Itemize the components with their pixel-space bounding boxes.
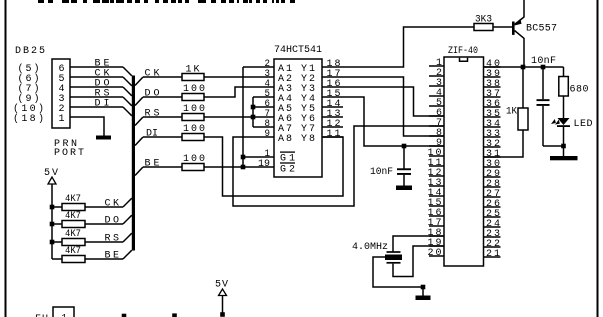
- supply 5V triangle (bottom): [219, 289, 227, 296]
- wire rail to 4K7 (CK): [52, 206, 62, 208]
- U1 right stub pin 12: [322, 126, 343, 128]
- ZIF left stub pin 16: [429, 215, 444, 217]
- wire to U1 pin2 (A1): [243, 66, 274, 68]
- wire U1 pin9 (A8) wrap-around to ZIF pin7: [233, 126, 444, 206]
- svg-text:4K7: 4K7: [65, 211, 81, 222]
- fuse box (cut off): [53, 307, 74, 317]
- wire ZIF pin18 to resonator: [393, 236, 444, 252]
- ZIF right stub pin 39: [484, 76, 501, 78]
- bus (thick vertical line): [132, 76, 135, 251]
- 5V stem (bottom): [222, 296, 224, 314]
- wire 4K7 to bus (CK): [85, 206, 123, 208]
- svg-text:ZIF-40: ZIF-40: [448, 46, 478, 57]
- junction dot 2 (cut off, bottom): [172, 313, 177, 317]
- Q1 emitter arrow (PNP): [515, 19, 522, 25]
- bus entry diagonal (DO): [123, 215, 132, 224]
- 5V rail vertical: [51, 184, 53, 259]
- ZIF right stub pin 35: [484, 116, 501, 118]
- ZIF right stub pin 36: [484, 106, 501, 108]
- wire RS to 100R: [143, 116, 182, 118]
- bus exit diagonal RS: [135, 117, 143, 126]
- ZIF left stub pin 5: [429, 105, 444, 107]
- wire Y3 (pin16) to ZIF pin6: [343, 87, 444, 116]
- socket ZIF-40 body: [444, 57, 484, 266]
- svg-text:21: 21: [486, 249, 500, 260]
- resistor 4K7 (CK): [62, 204, 85, 211]
- ZIF right stub pin 33: [484, 136, 501, 138]
- LED D1 cathode bar: [557, 125, 570, 127]
- svg-text:5V: 5V: [44, 168, 58, 179]
- 10nF C2 top lead: [403, 146, 405, 169]
- 1K R lead from rail: [522, 67, 524, 108]
- bus exit diagonal DI: [135, 137, 143, 146]
- svg-text:DI: DI: [146, 129, 158, 140]
- svg-text:4K7: 4K7: [65, 194, 81, 205]
- ZIF left stub pin 14: [429, 195, 444, 197]
- U1 pin6 stub (A5): [253, 106, 274, 108]
- page border right: [597, 0, 599, 317]
- wire DO to 100R: [143, 96, 182, 98]
- svg-text:Y8: Y8: [301, 134, 315, 145]
- wire Y2 (pin17) to ZIF pin8: [343, 77, 444, 136]
- bus entry diagonal DI: [123, 107, 132, 116]
- wire rail corner to 4K7 (BE): [52, 258, 62, 260]
- resistor 100 (BE): [182, 164, 204, 171]
- svg-text:1K: 1K: [506, 107, 517, 118]
- ZIF left stub pin 6: [429, 115, 444, 117]
- bus entry diagonal (BE): [123, 250, 132, 259]
- ZIF left stub pin 12: [429, 175, 444, 177]
- supply 5V triangle (left): [48, 177, 56, 184]
- ZIF right stub pin 22: [484, 246, 501, 248]
- C3 bottom lead: [542, 106, 544, 146]
- ZIF left stub pin 10: [429, 155, 444, 157]
- ZIF right stub pin 37: [484, 96, 501, 98]
- wire resonator center tap to ground: [373, 257, 423, 287]
- ZIF right stub pin 30: [484, 166, 501, 168]
- ZIF right stub pin 28: [484, 186, 501, 188]
- junction at resonator ground: [421, 285, 426, 290]
- svg-text:100: 100: [183, 104, 205, 115]
- ZIF right stub pin 29: [484, 176, 501, 178]
- ZIF right stub pin 21: [484, 256, 501, 258]
- connector DB25 body: [52, 59, 70, 128]
- svg-text:1: 1: [62, 314, 68, 317]
- wire DI wrap-around to U1 pin11 (Y8): [204, 137, 343, 196]
- resistor 100 (RS): [182, 114, 204, 121]
- wire DB25 pin 2 to bus (DI): [70, 106, 123, 108]
- ZIF right stub pin 31: [484, 156, 501, 158]
- wire DB25 pin 5 to bus (CK): [70, 76, 123, 78]
- wire 1K to ZIF pin31: [484, 130, 524, 157]
- svg-text:9: 9: [265, 129, 271, 140]
- wire rail to 4K7 (RS): [52, 241, 62, 243]
- C3 top lead: [542, 67, 544, 99]
- wire 4K7 to bus (BE): [85, 258, 123, 260]
- transistor Q1 BC557 base bar: [512, 22, 515, 35]
- svg-text:1K: 1K: [186, 65, 200, 76]
- svg-text:LED: LED: [574, 119, 593, 130]
- ground symbol under DB25: [96, 136, 111, 140]
- svg-text:680: 680: [570, 85, 589, 96]
- ZIF right stub pin 23: [484, 236, 501, 238]
- junction rail/DO: [50, 222, 55, 227]
- resonator X1 bottom plate: [387, 262, 401, 264]
- bus exit diagonal BE: [135, 167, 143, 176]
- ZIF right stub pin 34: [484, 126, 501, 128]
- junction rail/CK: [50, 205, 55, 210]
- wire Y4 (pin15) to ZIF pin9: [343, 97, 444, 146]
- Q1 collector diagonal: [515, 31, 525, 39]
- IC U1 74HCT541 body: [274, 59, 322, 177]
- wire rail to 680: [563, 67, 565, 77]
- wire 4K7 to bus (DO): [85, 223, 123, 225]
- svg-text:4K7: 4K7: [65, 246, 81, 257]
- resonator ground lead: [422, 287, 424, 296]
- svg-text:1: 1: [59, 114, 65, 125]
- ZIF left stub pin 8: [429, 135, 444, 137]
- ZIF left stub pin 13: [429, 185, 444, 187]
- resonator X1 top plate: [387, 251, 401, 253]
- ZIF left stub pin 3: [429, 85, 444, 87]
- ZIF right stub pin 32: [484, 146, 501, 148]
- G1 overline: [280, 151, 295, 153]
- U1 pin5 stub (A4): [253, 96, 274, 98]
- wire ZIF pin40 rail: [484, 66, 564, 68]
- svg-text:100: 100: [183, 154, 205, 165]
- svg-text:11: 11: [327, 129, 341, 140]
- wire DB25 pin 3 to bus (RS): [70, 96, 123, 98]
- wire Y1 (pin18) up to 3K3: [343, 27, 474, 67]
- ground symbol below LED: [550, 156, 578, 160]
- ground symbol below C2: [396, 186, 412, 191]
- svg-text:10nF: 10nF: [531, 56, 556, 67]
- wire BE net vertical to G1 and pin2 (A1): [242, 67, 244, 167]
- ZIF right stub pin 38: [484, 86, 501, 88]
- bus entry diagonal (RS): [123, 233, 132, 242]
- ZIF left stub pin 7: [429, 125, 444, 127]
- ZIF left stub pin 20: [429, 255, 444, 257]
- wire 1K to U1 pin3: [204, 76, 274, 78]
- LED cathode lead down: [563, 127, 565, 156]
- svg-text:BC557: BC557: [526, 24, 557, 35]
- wire rail to 4K7 (DO): [52, 223, 62, 225]
- capacitor C3 plate top: [537, 99, 550, 101]
- ZIF right stub pin 24: [484, 226, 501, 228]
- svg-text:100: 100: [183, 84, 205, 95]
- svg-text:19: 19: [258, 159, 270, 170]
- bus entry diagonal CK: [123, 77, 132, 86]
- wire 100R to U1 pin7: [204, 116, 274, 118]
- wire 3K3 to Q1 base: [493, 26, 512, 28]
- bus entry diagonal DO: [123, 87, 132, 96]
- svg-text:PORT: PORT: [54, 148, 84, 159]
- svg-text:100: 100: [183, 124, 205, 135]
- svg-text:3K3: 3K3: [475, 15, 492, 26]
- wire 100R to U1 pin4 (jog up): [204, 87, 274, 97]
- junction BE/G1: [241, 155, 246, 160]
- U1 right stub pin 16: [322, 86, 343, 88]
- LED D1 triangle: [558, 118, 570, 125]
- svg-text:4.0MHz: 4.0MHz: [352, 242, 388, 253]
- junction dot (cut off, bottom): [122, 314, 127, 317]
- bus entry diagonal RS: [123, 97, 132, 106]
- Q1 emitter diagonal: [515, 17, 525, 25]
- svg-text:4K7: 4K7: [65, 229, 81, 240]
- LED arrow 2: [555, 120, 560, 125]
- U1 right stub pin 11: [322, 136, 343, 138]
- U1 right stub pin 17: [322, 76, 343, 78]
- wire DI to 100R: [143, 136, 182, 138]
- wire tie A4-A7 vertical: [252, 97, 254, 127]
- resistor 3K3: [474, 24, 493, 31]
- Q1 emitter lead to top edge (cut off): [523, 0, 525, 17]
- resistor 1K (CK): [182, 74, 204, 81]
- ZIF left stub pin 11: [429, 165, 444, 167]
- junction BE/G2: [241, 165, 246, 170]
- ZIF right stub pin 27: [484, 196, 501, 198]
- wire DB25 pin 1 to ground: [70, 117, 104, 136]
- resistor 1K (right): [518, 108, 528, 130]
- ZIF left stub pin 17: [429, 225, 444, 227]
- wire DB25 pin 6 to bus (BE): [70, 66, 123, 68]
- junction collector/rail: [521, 65, 526, 70]
- wire resonator to ZIF pin19: [393, 246, 444, 277]
- resistor 100 (DO): [182, 94, 204, 101]
- resistor 680: [559, 77, 569, 97]
- bus exit diagonal DO: [135, 97, 143, 106]
- ZIF left stub pin 15: [429, 205, 444, 207]
- capacitor C2 10nF plate bottom: [397, 173, 411, 175]
- bus entry diagonal (CK): [123, 198, 132, 207]
- resonator X1 body: [385, 255, 402, 261]
- ground symbol below resonator: [416, 296, 431, 301]
- junction rail/RS: [50, 240, 55, 245]
- junction tie/A6: [251, 115, 256, 120]
- wire 4K7 to bus (RS): [85, 241, 123, 243]
- junction tie/A5: [251, 105, 256, 110]
- resistor 4K7 (DO): [62, 221, 85, 228]
- junction at 5V stem (cut off): [220, 312, 225, 317]
- ZIF left stub pin 9: [429, 145, 444, 147]
- wire C3 to LED cathode node: [543, 145, 564, 147]
- ZIF left stub pin 2: [429, 75, 444, 77]
- U1 right stub pin 15: [322, 96, 343, 98]
- svg-text:74HCT541: 74HCT541: [274, 45, 322, 56]
- wire 680 to LED: [563, 96, 565, 118]
- wire to U1 pin1 (G1): [243, 156, 274, 158]
- LED arrow 1: [551, 119, 556, 124]
- page border left: [5, 0, 7, 317]
- capacitor C3 plate bottom: [537, 104, 550, 106]
- junction LED/C3: [561, 144, 566, 149]
- svg-text:DB25: DB25: [15, 46, 45, 57]
- U1 pin8 stub (A7): [253, 126, 274, 128]
- svg-text:5V: 5V: [215, 280, 228, 291]
- U1 right stub pin 14: [322, 106, 343, 108]
- title text bottom fragments (cut off at top edge): [38, 0, 44, 3]
- svg-text:A8: A8: [278, 134, 292, 145]
- bus entry diagonal BE: [123, 67, 132, 76]
- ZIF right stub pin 25: [484, 216, 501, 218]
- svg-text:20: 20: [428, 248, 442, 259]
- Q1 collector lead down: [523, 38, 525, 67]
- ZIF left stub pin 19: [429, 245, 444, 247]
- svg-text:10nF: 10nF: [370, 167, 393, 178]
- G2 overline: [280, 162, 295, 164]
- ZIF left stub pin 1: [429, 65, 444, 67]
- ZIF left stub pin 18: [429, 235, 444, 237]
- ZIF right stub pin 26: [484, 206, 501, 208]
- wire 100R to U1 pin19 (G2): [204, 166, 274, 168]
- ZIF right stub pin 40: [484, 66, 501, 68]
- resistor 4K7 (RS): [62, 239, 85, 246]
- bus exit diagonal CK: [135, 77, 143, 86]
- resistor 4K7 (BE): [62, 256, 85, 263]
- ZIF-40 pin1 notch: [460, 58, 468, 62]
- U1 right stub pin 13: [322, 116, 343, 118]
- wire DB25 pin 4 to bus (DO): [70, 86, 123, 88]
- U1 right stub pin 18: [322, 66, 343, 68]
- wire CK to 1K: [143, 76, 182, 78]
- 10nF C2 bottom lead: [403, 175, 405, 186]
- capacitor C2 10nF plate top: [397, 168, 411, 170]
- wire BE to 100R: [143, 166, 182, 168]
- resistor 100 (DI): [182, 134, 204, 141]
- ZIF left stub pin 4: [429, 95, 444, 97]
- junction rail/10nF C3: [541, 65, 546, 70]
- junction Y4/10nF: [402, 144, 407, 149]
